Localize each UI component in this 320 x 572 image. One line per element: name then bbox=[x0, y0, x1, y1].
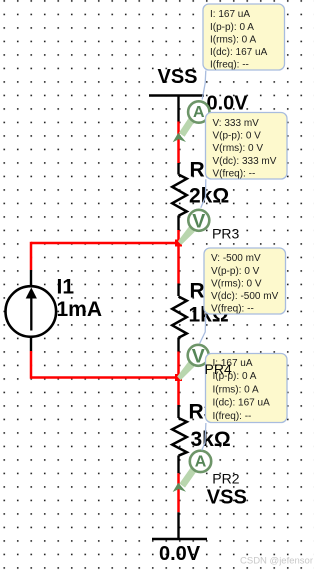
svg-text:V: 333 mV: V: 333 mV bbox=[213, 118, 260, 129]
readout box PR3 voltages bbox=[206, 113, 288, 180]
readout box PR4 voltages bbox=[204, 248, 286, 315]
wire: bottom horizontal from I1 to node B bbox=[31, 376, 179, 379]
svg-text:I1: I1 bbox=[57, 276, 75, 299]
wire: black lead stub to I1 top pin bbox=[30, 270, 32, 287]
svg-text:I(freq): --: I(freq): -- bbox=[210, 60, 249, 71]
readout box PR2 currents bbox=[206, 354, 288, 423]
wire: left vertical upper segment bbox=[30, 242, 33, 270]
svg-text:PR2: PR2 bbox=[212, 470, 239, 486]
svg-text:0.0V: 0.0V bbox=[207, 93, 249, 115]
svg-text:VSS: VSS bbox=[207, 487, 247, 509]
svg-text:I(dc): 167 uA: I(dc): 167 uA bbox=[213, 398, 271, 409]
svg-text:V(p-p): 0 V: V(p-p): 0 V bbox=[213, 131, 262, 142]
svg-text:I: 167 uA: I: 167 uA bbox=[210, 9, 250, 20]
resistor R3 bbox=[172, 405, 187, 473]
svg-text:I(p-p): 0 A: I(p-p): 0 A bbox=[210, 22, 254, 33]
wire: black lead stub from I1 bottom pin bbox=[30, 336, 32, 351]
leader line box1 to PR1 bbox=[202, 71, 206, 100]
probe PR4 voltage probe bbox=[177, 345, 209, 380]
svg-text:PR4: PR4 bbox=[205, 361, 232, 377]
svg-text:V: -500 mV: V: -500 mV bbox=[211, 253, 261, 264]
svg-text:V(freq): --: V(freq): -- bbox=[213, 168, 256, 179]
wire: top horizontal from I1 to node A bbox=[31, 242, 179, 245]
wire: VSS net down to R1 bbox=[177, 122, 180, 164]
power symbol VSS bottom rail bar bbox=[152, 538, 207, 540]
current source I1 bbox=[6, 286, 57, 337]
leader line box4 to PR2 bbox=[202, 423, 206, 450]
power symbol VSS top rail bar bbox=[149, 94, 204, 96]
leader line box3 to PR4 bbox=[200, 314, 206, 343]
wire: R2 to node B bbox=[177, 352, 180, 406]
svg-text:3kΩ: 3kΩ bbox=[191, 428, 231, 451]
svg-text:1mA: 1mA bbox=[57, 298, 103, 321]
svg-text:A: A bbox=[195, 453, 207, 470]
svg-text:V(rms): 0 V: V(rms): 0 V bbox=[213, 143, 264, 154]
svg-text:VSS: VSS bbox=[158, 66, 198, 88]
svg-text:I(rms): 0 A: I(rms): 0 A bbox=[213, 384, 259, 395]
resistor R2 bbox=[172, 284, 187, 352]
wire: black stub above bottom rail bbox=[177, 512, 179, 539]
svg-text:V: V bbox=[192, 345, 205, 367]
resistor R1 bbox=[172, 163, 187, 230]
svg-text:PR3: PR3 bbox=[212, 226, 239, 242]
svg-text:2kΩ: 2kΩ bbox=[189, 185, 229, 208]
readout box PR1 currents bbox=[203, 4, 285, 71]
svg-text:I(freq): --: I(freq): -- bbox=[213, 411, 252, 422]
wire: R3 down to bottom rail net bbox=[177, 473, 180, 512]
wire: black stub below top rail bbox=[177, 96, 179, 122]
svg-text:V: V bbox=[192, 210, 205, 232]
svg-text:V(dc): 333 mV: V(dc): 333 mV bbox=[213, 156, 277, 167]
wire: R1 to node A bbox=[177, 230, 180, 284]
svg-text:V(dc): -500 mV: V(dc): -500 mV bbox=[211, 291, 279, 302]
leader line box2 to PR3 bbox=[201, 179, 206, 208]
svg-text:V(rms): 0 V: V(rms): 0 V bbox=[211, 278, 262, 289]
junction node B bbox=[175, 374, 182, 381]
svg-text:V(p-p): 0 V: V(p-p): 0 V bbox=[211, 266, 260, 277]
junction node A bbox=[175, 240, 182, 247]
svg-text:CSDN @jefensor: CSDN @jefensor bbox=[240, 556, 313, 567]
svg-text:0.0V: 0.0V bbox=[159, 543, 201, 565]
svg-text:I(rms): 0 A: I(rms): 0 A bbox=[210, 34, 256, 45]
probe PR2 current probe bbox=[173, 451, 212, 492]
svg-text:I(dc): 167 uA: I(dc): 167 uA bbox=[210, 47, 268, 58]
probe PR1 current probe bbox=[173, 101, 210, 142]
svg-text:V(freq): --: V(freq): -- bbox=[211, 304, 254, 315]
svg-text:A: A bbox=[193, 104, 205, 121]
probe PR3 voltage probe bbox=[178, 210, 209, 245]
wire: left vertical lower segment bbox=[30, 351, 33, 379]
